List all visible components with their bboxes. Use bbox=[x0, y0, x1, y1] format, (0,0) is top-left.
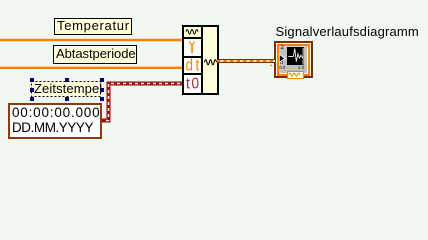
wire Temperatur (DBL) to Y input bbox=[0, 39, 182, 41]
selection marquee of Zeitstempel label bbox=[32, 82, 101, 97]
all wires and glyph strokes bbox=[0, 0, 428, 151]
waveform badge glyph bbox=[289, 73, 300, 76]
chart terminal plot area bbox=[287, 47, 304, 65]
input cell waveform component bbox=[184, 27, 201, 37]
chart x-axis labels bbox=[279, 66, 285, 70]
node label Temperatur bbox=[54, 18, 132, 35]
chart terminal orange frame bbox=[277, 44, 310, 76]
terminal arrow bbox=[279, 54, 284, 62]
waveform glyph in node input cell bbox=[186, 30, 198, 35]
cell divider bbox=[184, 37, 201, 39]
chart axis label 2 bbox=[281, 46, 284, 51]
stray wire pixel bbox=[270, 65, 272, 66]
terminal Signalverlaufsdiagramm label bbox=[276, 25, 419, 39]
input cell t0 bbox=[184, 75, 201, 93]
cell divider bbox=[184, 56, 201, 58]
wire time stamp: constant to t0 input bbox=[102, 84, 182, 121]
column divider bbox=[201, 27, 203, 93]
waveform glyph at node output bbox=[205, 60, 217, 65]
time stamp constant 00:00:00.000 DD.MM.YYYY bbox=[8, 103, 102, 139]
waveform datatype badge on chart terminal bbox=[287, 71, 304, 79]
wire waveform: node output to chart terminal bbox=[217, 59, 275, 63]
input cell dt bbox=[184, 58, 201, 73]
chart axis label 0 bbox=[280, 61, 283, 66]
chart terminal outer waveform-type frame bbox=[274, 41, 313, 78]
node label Zeitstempel (selected) bbox=[31, 81, 101, 97]
Y glyph in node bbox=[189, 42, 195, 53]
cell divider bbox=[184, 73, 201, 75]
chart trace in terminal plot bbox=[288, 48, 303, 61]
chart terminal icon gray panel bevel bbox=[279, 46, 308, 74]
input cell Y bbox=[184, 39, 201, 56]
Build Waveform node body bbox=[182, 25, 219, 95]
wire Abtastperiode (DBL) to dt input bbox=[0, 67, 182, 69]
selection handles for Zeitstempel label bbox=[30, 78, 34, 82]
node label Abtastperiode bbox=[53, 45, 137, 64]
